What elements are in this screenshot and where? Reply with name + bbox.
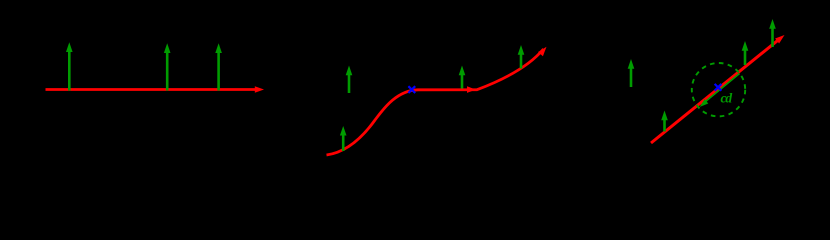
svg-text:cd: cd <box>721 91 733 106</box>
dashed green zoom circle <box>692 63 745 116</box>
green vector arrow a2 (small, on line, panel 3) <box>661 111 668 132</box>
wire: red inclined line <box>651 40 779 143</box>
green vector arrow A (on curve start, panel 2) <box>340 126 347 151</box>
green difference arrow inside circle (points down-left) <box>700 74 740 108</box>
green vector arrow C (on plateau, panel 2) <box>459 66 466 89</box>
green vector arrow a3 (on line right of circle, panel 3) <box>742 41 749 65</box>
red arrowhead at top right of inclined line <box>775 35 784 44</box>
green vector arrow a1 (floating left, panel 3) <box>628 59 635 87</box>
green vector arrow a4 (rightmost, panel 3) <box>769 19 776 47</box>
green vector arrow B (floating left, panel 2) <box>346 66 353 94</box>
red arrowhead at top right end of S-curve <box>538 47 547 56</box>
blue X marker on plateau (panel 2) <box>408 86 415 93</box>
red arrowhead (right end of horizontal line) <box>255 86 264 93</box>
wire: red horizontal line <box>46 88 256 91</box>
green vector arrow 1 (panel 1) <box>66 42 73 90</box>
wire: red S-curve <box>327 49 544 155</box>
green vector arrow 2 (panel 1) <box>164 43 171 90</box>
blue X marker at circle center (panel 3) <box>715 84 722 91</box>
red arrowhead middle of plateau <box>467 86 476 93</box>
green vector arrow 3 (panel 1) <box>215 43 222 90</box>
green vector arrow D (on rising tail, panel 2) <box>518 45 525 69</box>
